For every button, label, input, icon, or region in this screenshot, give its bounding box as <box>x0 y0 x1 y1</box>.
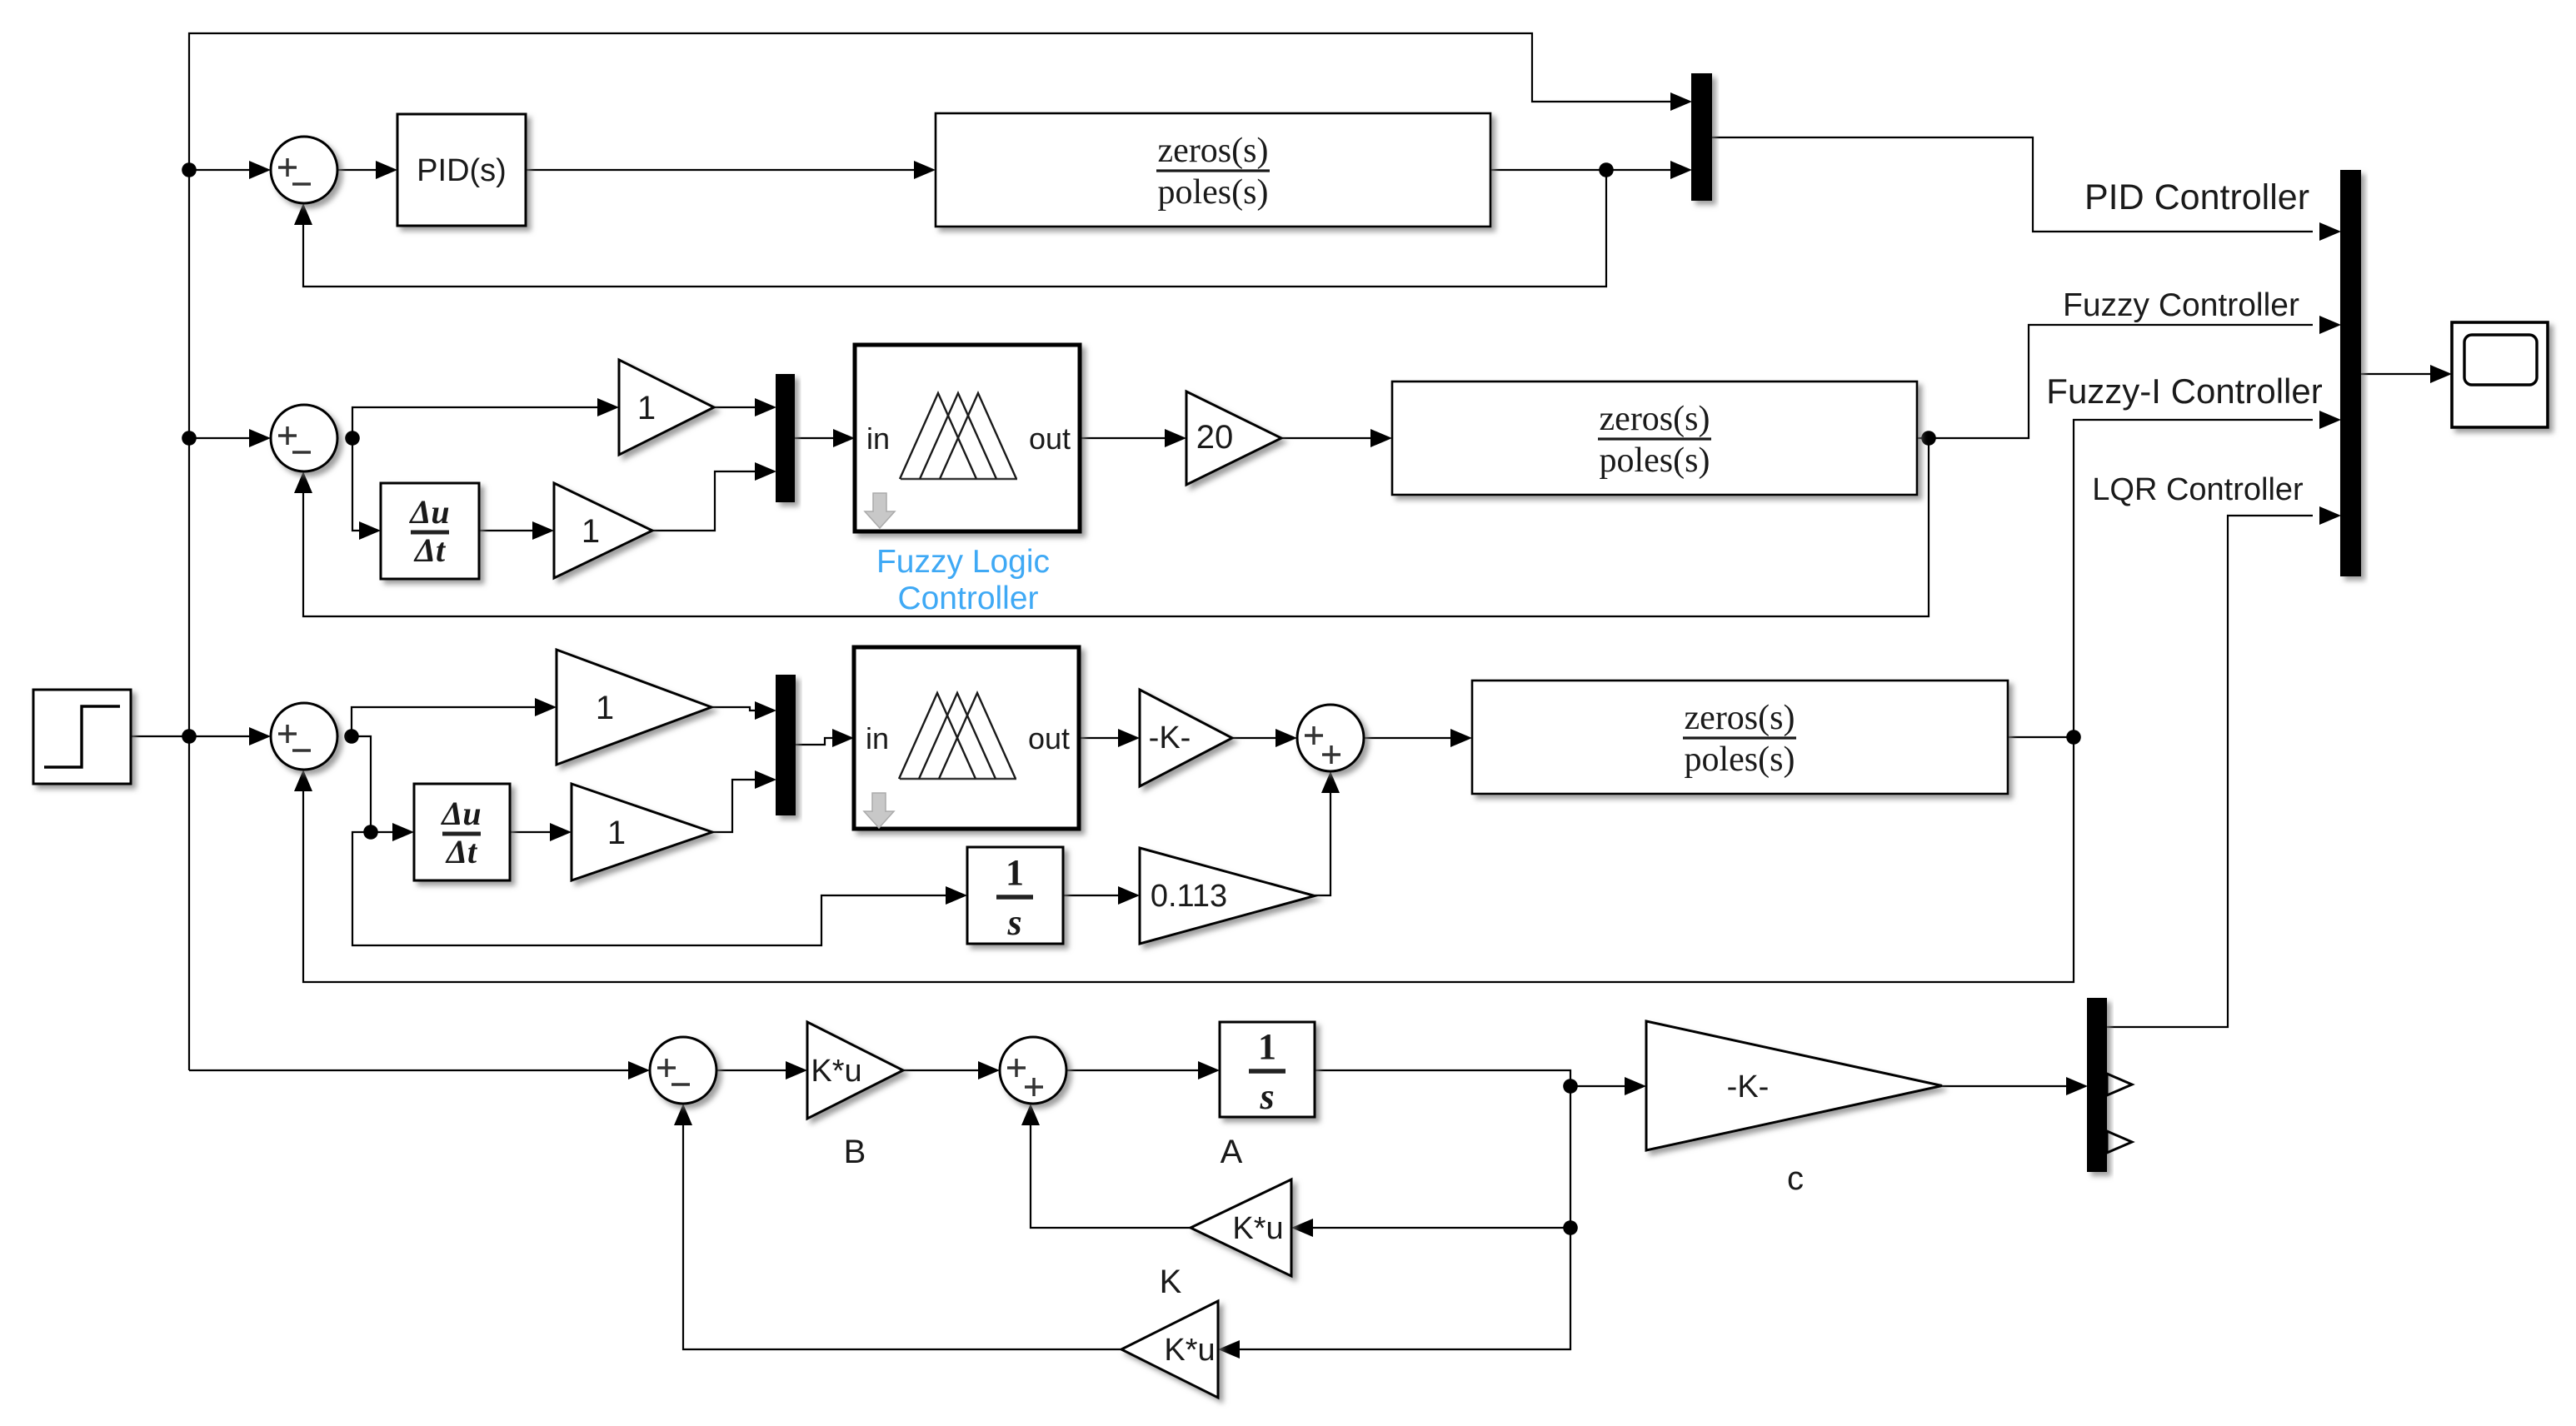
svg-text:LQR Controller: LQR Controller <box>2092 472 2304 507</box>
svg-text:Δt: Δt <box>413 531 447 569</box>
wire: Fuzzy feedback from TF2 output to Sum2 minus <box>294 438 1929 616</box>
node: TF3 output junction on Fuzzy-I net <box>2066 730 2081 745</box>
node: trunk junction row1 <box>182 162 197 177</box>
label Fuzzy Logic Controller (blue) <box>876 544 1050 616</box>
wire: Gain c to Demux <box>1942 1077 2088 1095</box>
wire: Gain3 to Mux4 in1 <box>711 701 776 720</box>
svg-text:out: out <box>1028 721 1070 755</box>
wire: Fuzzy1 out to Gain 20 <box>1080 429 1186 447</box>
wire: state vertical down to K gains <box>1218 1086 1570 1359</box>
wire: TF1 output to Mux1 in2 <box>1490 161 1692 179</box>
sum Sum3 (+-) <box>271 703 337 770</box>
wire: Demux out1 up to Mux2 in4 (LQR Controller) <box>2106 506 2341 1027</box>
transfer function TF3 zeros(s)/poles(s) <box>1472 681 2008 794</box>
svg-text:PID Controller: PID Controller <box>2084 177 2309 217</box>
scope block <box>2452 322 2548 427</box>
transfer function TF2 zeros(s)/poles(s) <box>1392 381 1917 495</box>
svg-text:poles(s): poles(s) <box>1685 740 1795 779</box>
sum Sum6 (++) <box>1000 1037 1066 1104</box>
wire: Gain4 to Mux4 in2 <box>712 770 776 832</box>
wire: PID feedback from TF1 output down/left/up to Sum1 minus <box>294 170 1606 287</box>
wire: Gain 20 to TF2 <box>1281 429 1392 447</box>
label B <box>844 1134 866 1170</box>
demux block <box>2088 999 2132 1171</box>
svg-text:Controller: Controller <box>897 581 1038 616</box>
label PID Controller <box>2084 177 2309 217</box>
wire: Gain B to Sum6 <box>903 1061 1000 1079</box>
svg-text:in: in <box>866 721 889 755</box>
wire: Integrator A output to Gain c <box>1315 1070 1646 1095</box>
transfer function TF1 zeros(s)/poles(s) <box>936 113 1490 227</box>
mux Mux3 <box>776 375 794 501</box>
node: Sum3 output junction <box>344 729 359 744</box>
node: derivative branch junction <box>363 825 378 840</box>
svg-text:1: 1 <box>637 390 656 426</box>
sum Sum5 (+-) <box>650 1037 716 1104</box>
derivative block du/dt 2 <box>414 784 510 880</box>
svg-text:Fuzzy Controller: Fuzzy Controller <box>2063 287 2299 323</box>
wire: Sum5 to Gain B <box>716 1061 807 1079</box>
gain Gain2 value 1 <box>554 483 652 578</box>
wire: Mux3 output to Fuzzy Logic Controller <box>794 429 855 447</box>
integrator block A 1/s <box>1220 1022 1315 1117</box>
svg-text:B: B <box>844 1134 866 1170</box>
PID(s) controller block <box>397 114 526 226</box>
node: state junction for c gain <box>1563 1079 1578 1094</box>
mux Mux1 <box>1692 74 1711 200</box>
wire: Sum2 out up-branch to Gain1 <box>352 398 619 438</box>
node: trunk junction row2 <box>182 431 197 446</box>
node: trunk junction at step output <box>182 729 197 744</box>
svg-text:s: s <box>1259 1076 1274 1117</box>
wire: trunk to Sum1 <box>189 161 271 179</box>
svg-text:-K-: -K- <box>1149 720 1191 755</box>
svg-text:Δu: Δu <box>440 795 481 832</box>
label Fuzzy Controller <box>2063 287 2299 323</box>
svg-text:-K-: -K- <box>1727 1069 1770 1104</box>
svg-text:K*u: K*u <box>1164 1333 1215 1368</box>
svg-text:1: 1 <box>596 690 614 726</box>
wire: Mux2 output to Scope <box>2360 365 2452 383</box>
svg-text:K*u: K*u <box>1232 1211 1283 1246</box>
wire: Sum2 out down-branch to derivative du/dt <box>352 438 381 540</box>
wire: tap to Gain K input <box>1291 1219 1570 1237</box>
svg-text:1: 1 <box>1006 852 1024 893</box>
gain Gain4 value 1 <box>572 784 712 880</box>
svg-text:zeros(s): zeros(s) <box>1158 132 1269 170</box>
fuzzy logic controller block 2 <box>854 647 1079 829</box>
wire: Fuzzy-I net vertical to Mux2 in3 <box>2074 411 2341 737</box>
svg-text:A: A <box>1221 1134 1243 1170</box>
svg-text:Fuzzy-I Controller: Fuzzy-I Controller <box>2046 371 2322 411</box>
svg-text:0.113: 0.113 <box>1151 879 1227 914</box>
svg-text:Fuzzy Logic: Fuzzy Logic <box>876 544 1050 580</box>
svg-text:K: K <box>1160 1264 1182 1300</box>
wire: TF3 output to junction <box>2008 736 2074 738</box>
wire: PID block to transfer Fcn1 <box>526 161 936 179</box>
wire: Sum3 down-branch to derivative du/dt2 <box>352 736 414 841</box>
label c <box>1787 1160 1804 1197</box>
wire: Gain 0.113 up to Sum4 plus <box>1315 771 1340 895</box>
node: TF1 output junction <box>1599 162 1614 177</box>
integrator block 1/s <box>967 847 1063 944</box>
wire: trunk to sum5 (LQR row) <box>189 1061 650 1079</box>
node: state tap for Gain K <box>1563 1220 1578 1235</box>
wire: trunk to Sum3 <box>189 727 271 745</box>
mux Mux2 (controller selector) <box>2341 171 2360 576</box>
sum Sum1 (+-) <box>271 137 337 203</box>
label A <box>1221 1134 1243 1170</box>
sum Sum2 (+-) <box>271 405 337 471</box>
label LQR Controller <box>2092 472 2304 507</box>
wire: Gain K output to Sum6 plus <box>1021 1104 1191 1228</box>
svg-text:1: 1 <box>607 815 626 851</box>
wire: source distribution trunk from step output up to top and down to LQR row <box>189 33 1692 1070</box>
wire: Sum6 to Integrator A <box>1066 1061 1220 1079</box>
gain Ku2 (K*u, mirrored) <box>1121 1301 1218 1398</box>
gain 0.113 <box>1140 848 1315 944</box>
wire: Gain -K- to Sum4 <box>1232 729 1297 747</box>
svg-text:c: c <box>1787 1160 1804 1197</box>
wire: Mux4 out to Fuzzy Logic Controller 2 <box>795 729 854 747</box>
derivative block du/dt <box>381 483 479 579</box>
svg-text:PID(s): PID(s) <box>417 153 507 188</box>
wire: Integrator 1/s to Gain 0.113 <box>1063 886 1140 905</box>
wire: Mux1 output to big Mux2 in1 <box>1711 137 2341 241</box>
wire: step output to trunk <box>131 735 189 737</box>
sum Sum4 (++) <box>1297 705 1364 771</box>
svg-text:in: in <box>866 421 890 456</box>
wire: branch down to Integrator 1/s <box>352 832 967 945</box>
label Fuzzy-I Controller <box>2046 371 2322 411</box>
gain Gain3 value 1 <box>557 650 711 765</box>
wire: Sum3 out up-branch to Gain3 <box>352 698 557 736</box>
node: TF2 output junction <box>1921 431 1936 446</box>
svg-text:Δt: Δt <box>445 833 478 870</box>
wire: Gain1 to Mux3 in1 <box>714 398 776 416</box>
svg-text:out: out <box>1029 421 1071 456</box>
mux Mux4 <box>776 676 795 815</box>
gain c (-K-) <box>1646 1021 1942 1150</box>
wire: Sum4 to TF3 <box>1364 729 1472 747</box>
svg-text:K*u: K*u <box>811 1054 861 1089</box>
wire: Gain Ku2 output to Sum5 minus <box>674 1104 1121 1349</box>
svg-text:zeros(s): zeros(s) <box>1600 400 1710 438</box>
wire: du/dt to Gain2 <box>479 521 554 540</box>
fuzzy logic controller block 1 <box>855 345 1080 531</box>
wire: Fuzzy2 out to Gain -K- <box>1079 729 1140 747</box>
node: Sum2 output junction <box>345 431 360 446</box>
gain -K- (fuzzy output gain) <box>1140 690 1232 786</box>
wire: Fuzzy-I feedback down/left to Sum3 minus <box>294 737 2074 982</box>
svg-text:poles(s): poles(s) <box>1600 441 1710 480</box>
gain Gain 20 <box>1186 391 1281 485</box>
step source block <box>33 690 131 784</box>
svg-text:poles(s): poles(s) <box>1158 173 1269 212</box>
svg-text:Δu: Δu <box>408 493 449 531</box>
svg-text:s: s <box>1006 902 1021 943</box>
svg-text:zeros(s): zeros(s) <box>1685 699 1795 737</box>
wire: Gain2 to Mux3 in2 <box>652 462 776 531</box>
wire: trunk to Sum2 <box>189 429 271 447</box>
gain B (K*u) <box>807 1022 903 1119</box>
wire: du/dt2 to Gain4 <box>510 823 572 841</box>
label K <box>1160 1264 1182 1300</box>
svg-text:1: 1 <box>1258 1026 1276 1067</box>
svg-text:20: 20 <box>1196 419 1234 456</box>
gain Gain1 value 1 <box>619 360 714 455</box>
svg-text:1: 1 <box>582 513 600 550</box>
wire: TF2 output to Mux2 in2 (Fuzzy Controller) <box>1917 316 2341 438</box>
wire: Sum1 to PID block <box>337 161 397 179</box>
gain K (K*u, mirrored) <box>1191 1179 1291 1276</box>
